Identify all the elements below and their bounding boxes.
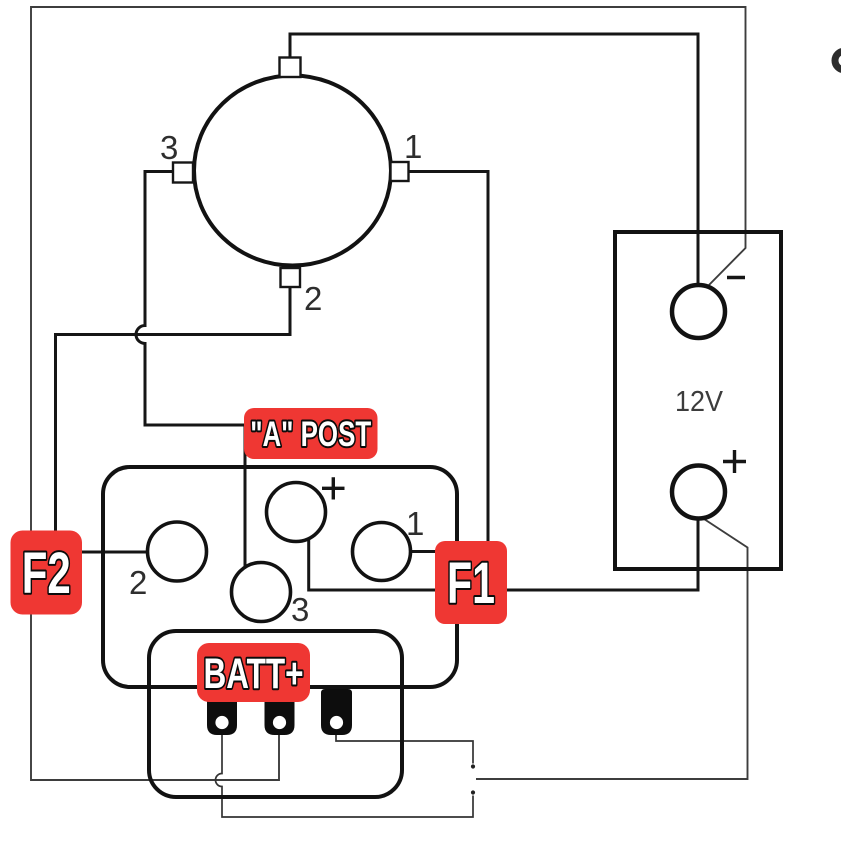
svg-text:12V: 12V <box>675 386 723 418</box>
node: switch upper contact dot <box>471 764 475 768</box>
regulator circle 1 <box>353 523 411 581</box>
battery positive terminal circle <box>672 466 725 519</box>
wire: regulator circle 1 to F1 <box>410 550 437 553</box>
svg-text:F1: F1 <box>447 551 495 616</box>
svg-text:3: 3 <box>160 129 178 166</box>
motor bottom post (2) <box>281 268 301 287</box>
battery negative terminal circle <box>672 285 725 338</box>
svg-text:"A" POST: "A" POST <box>250 415 371 454</box>
callout: F1 <box>435 541 507 624</box>
motor right post (1) <box>391 162 409 181</box>
wire: motor post 2 to F2 and regulator circle 2 <box>56 287 291 552</box>
motor / generator body <box>194 76 391 266</box>
svg-text:F2: F2 <box>22 541 71 606</box>
wire: battery negative loop (right diagonal, top border, left border, bottom run to terminal B) <box>31 7 746 780</box>
battery box <box>615 232 781 569</box>
motor left post (3) <box>173 163 193 183</box>
svg-text:3: 3 <box>291 591 309 628</box>
sign: regulator plus <box>322 477 345 499</box>
wire: terminal A to switch lower contact (hop over bottom wire) <box>216 734 474 817</box>
wire: battery positive to F1 to regulator + circle <box>309 516 698 590</box>
connector box <box>149 631 402 797</box>
regulator circle + <box>267 483 326 542</box>
svg-text:2: 2 <box>129 564 147 601</box>
regulator circle 3 (A post) <box>232 563 291 622</box>
terminal A (black lug) <box>207 689 237 735</box>
terminal C (black lug) <box>321 689 352 735</box>
sign: battery plus <box>723 450 746 473</box>
wire: motor top post to battery negative <box>290 34 698 287</box>
svg-text:2: 2 <box>304 280 322 317</box>
node: switch lower contact dot <box>471 790 475 794</box>
regulator box <box>103 467 457 687</box>
svg-text:1: 1 <box>404 128 422 165</box>
wire: motor post 3 to A-post (hop over wire 2) <box>136 172 245 571</box>
callout: BATT+ <box>197 643 310 702</box>
svg-text:BATT+: BATT+ <box>204 650 304 698</box>
wire: terminal C to switch upper contact <box>336 734 473 764</box>
terminal B (black lug) <box>265 689 295 735</box>
ui: partial dark ring at top-right edge <box>835 51 841 70</box>
wire: battery positive diagonal down right side to switch blade <box>476 517 748 779</box>
regulator circle 2 <box>148 522 207 581</box>
svg-text:1: 1 <box>406 505 424 542</box>
callout: "A" POST <box>244 408 378 459</box>
wire: motor post 1 down to F1 junction <box>409 172 489 591</box>
sign: battery minus <box>727 276 745 279</box>
callout: F2 <box>11 531 83 615</box>
motor top post <box>280 58 301 78</box>
